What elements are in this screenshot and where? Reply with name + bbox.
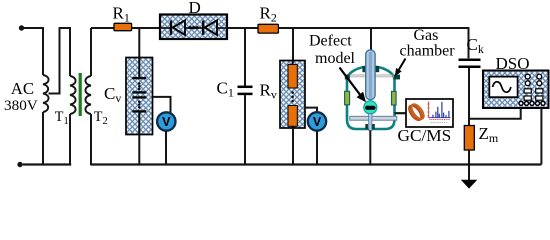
svg-text:Gas: Gas bbox=[414, 27, 439, 44]
svg-text:D: D bbox=[189, 0, 201, 17]
wire Cv tap to voltmeter V1 bbox=[153, 97, 171, 113]
capacitive divider Cv box bbox=[126, 58, 153, 135]
wire top terminal to variac bbox=[24, 27, 43, 29]
gas chamber lid arc bbox=[347, 67, 395, 81]
ellipsis dots in D bbox=[189, 26, 192, 29]
T2 core bbox=[79, 73, 82, 116]
AC input terminal (bottom) bbox=[17, 162, 22, 167]
svg-text:Defect: Defect bbox=[309, 33, 352, 50]
bushing tube bbox=[366, 50, 375, 100]
svg-text:C1: C1 bbox=[217, 79, 234, 100]
wire Zm to ground bus bbox=[468, 150, 470, 165]
T2 secondary wire lower bbox=[90, 114, 92, 165]
voltmeter V2 bbox=[308, 112, 326, 130]
wire Ck to Zm bbox=[468, 68, 470, 126]
wire bus to bushing bbox=[370, 28, 372, 52]
wire variac lower bbox=[42, 112, 44, 165]
measuring impedance Zm bbox=[464, 126, 474, 151]
wire Cv box bottom to ground bus bbox=[138, 135, 140, 166]
T2 primary wire lower bbox=[69, 114, 71, 165]
GC/MS instrument box bbox=[406, 99, 453, 127]
DSO oscilloscope box bbox=[483, 71, 549, 109]
svg-text:model: model bbox=[315, 50, 356, 67]
T2 primary winding bbox=[70, 76, 76, 114]
wire Rv box bottom to ground bus bbox=[292, 128, 294, 165]
gas chamber walls and bottom bbox=[347, 79, 395, 129]
T2 primary wire upper bbox=[69, 27, 71, 76]
wire variac upper bbox=[42, 27, 44, 75]
spectrum gray label row bbox=[431, 122, 447, 124]
DSO left lead to Zm junction bbox=[469, 108, 521, 119]
svg-text:V: V bbox=[162, 115, 171, 129]
DSO bottom knob row bbox=[519, 101, 523, 105]
svg-text:T1: T1 bbox=[55, 109, 69, 127]
variac winding T1 bbox=[43, 75, 49, 112]
spectrum red label row bbox=[430, 118, 451, 120]
spectrum peaks bbox=[433, 102, 449, 118]
svg-text:380V: 380V bbox=[4, 97, 38, 114]
side port right bbox=[392, 91, 397, 105]
wire chamber to ground bus bbox=[369, 131, 371, 165]
DSO screen bbox=[489, 77, 517, 98]
capacitor C1 bbox=[238, 86, 253, 89]
flange bolt right bbox=[394, 75, 400, 80]
bottom collar bbox=[365, 124, 368, 129]
svg-text:Rv: Rv bbox=[260, 81, 277, 102]
svg-text:AC: AC bbox=[11, 79, 34, 98]
DSO right lead to ground bus bbox=[540, 108, 542, 164]
spectrum baseline bbox=[429, 117, 451, 119]
resistor R1 bbox=[114, 23, 132, 30]
ground bus right segment bbox=[91, 163, 542, 165]
diode D-b bbox=[202, 21, 204, 35]
T2 secondary wire upper bbox=[90, 28, 92, 76]
DSO knobs column A bbox=[525, 74, 530, 79]
Cv internal stack bbox=[138, 58, 140, 78]
svg-text:Ck: Ck bbox=[467, 35, 484, 56]
gland nut right of tube bbox=[375, 66, 379, 72]
svg-text:V: V bbox=[313, 115, 322, 129]
defect model electrode bbox=[364, 101, 377, 114]
flange bolt left bbox=[345, 75, 350, 80]
wire bus to Cv bbox=[138, 28, 140, 58]
resistive divider Rv box bbox=[280, 61, 305, 129]
T2 secondary winding bbox=[85, 76, 91, 114]
svg-text:Zm: Zm bbox=[479, 124, 499, 145]
stem below electrode bbox=[369, 114, 372, 131]
wire bus to Rv bbox=[292, 28, 294, 61]
top bus wire R1 to D bbox=[132, 27, 160, 29]
svg-text:R1: R1 bbox=[113, 3, 130, 24]
DSO sine trace bbox=[493, 82, 511, 93]
ground plate electrode bbox=[350, 116, 397, 120]
top bus wire R2 to Ck corner bbox=[278, 28, 468, 58]
Rv internal resistors bbox=[292, 61, 294, 65]
wire bus to C1 bbox=[244, 28, 246, 86]
wire Rv tap to voltmeter V2 bbox=[305, 108, 317, 113]
diode stack box D bbox=[160, 15, 227, 40]
wire V2 to ground bus bbox=[316, 131, 318, 165]
svg-text:DSO: DSO bbox=[496, 54, 530, 73]
top bus wire T2 to R1 bbox=[91, 27, 114, 29]
wire V1 to ground bus bbox=[165, 131, 167, 165]
DSO knobs column B bbox=[537, 74, 542, 79]
side port left bbox=[345, 91, 350, 105]
AC input terminal (top) bbox=[19, 25, 24, 30]
coupling capacitor Ck bbox=[459, 58, 481, 61]
svg-text:chamber: chamber bbox=[400, 43, 456, 60]
wire C1 to ground bus bbox=[244, 95, 246, 165]
resistor R2 bbox=[258, 24, 278, 33]
spectrum axis bbox=[428, 102, 430, 119]
GC column coil icon bbox=[407, 103, 424, 122]
flange gasket lines bbox=[348, 75, 394, 77]
arrow defect model bbox=[340, 68, 361, 95]
top bus wire D to R2 bbox=[227, 27, 258, 29]
diode D-a bbox=[170, 21, 172, 35]
svg-text:Cv: Cv bbox=[104, 84, 121, 105]
tap wire from T1 bbox=[49, 28, 71, 94]
svg-text:GC/MS: GC/MS bbox=[398, 126, 452, 145]
wire chamber port to GC/MS bbox=[395, 112, 407, 114]
voltmeter V1 bbox=[157, 112, 175, 130]
arrow gas chamber bbox=[399, 59, 406, 70]
svg-text:R2: R2 bbox=[260, 3, 277, 24]
ground bus left segment bbox=[23, 163, 71, 165]
svg-text:T2: T2 bbox=[94, 109, 108, 127]
wire inside D bbox=[160, 27, 227, 29]
ground symbol bbox=[468, 165, 470, 180]
gland nut left of tube bbox=[362, 66, 366, 72]
